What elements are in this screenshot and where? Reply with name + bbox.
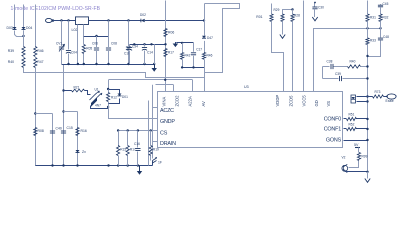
svg-text:R17: R17 [130,148,136,152]
svg-text:GNDP: GNDP [160,119,175,125]
svg-text:D02: D02 [140,13,146,17]
svg-text:C08: C08 [111,42,117,46]
svg-text:ZCD5: ZCD5 [289,95,294,107]
svg-text:5V: 5V [354,143,359,147]
svg-text:R73: R73 [375,90,381,94]
svg-text:Exale: Exale [386,99,394,103]
svg-text:C34: C34 [132,45,138,49]
svg-text:C38: C38 [327,60,333,64]
svg-text:R16: R16 [81,129,87,133]
svg-text:C48: C48 [383,35,389,39]
svg-text:R19: R19 [153,148,159,152]
svg-text:R40: R40 [8,60,14,64]
svg-text:R46: R46 [207,54,213,58]
svg-text:1F: 1F [158,161,162,165]
svg-text:VCC5: VCC5 [302,95,307,107]
svg-text:C14: C14 [147,51,153,55]
svg-text:C45: C45 [383,2,389,6]
svg-text:R39: R39 [8,49,14,53]
svg-text:V2: V2 [342,156,346,160]
svg-text:R40: R40 [350,60,356,64]
svg-text:R29: R29 [274,8,280,12]
svg-text:D03: D03 [7,26,13,30]
svg-text:R21: R21 [74,85,80,89]
svg-text:R06: R06 [168,31,174,35]
svg-text:R47: R47 [37,60,43,64]
svg-text:Zx: Zx [82,150,86,154]
svg-text:VINA: VINA [161,97,166,107]
svg-text:CV1: CV1 [56,42,62,46]
svg-text:C30: C30 [318,6,324,10]
svg-text:R33: R33 [370,39,376,43]
svg-text:R99: R99 [362,155,368,159]
svg-text:CONF1: CONF1 [324,127,341,133]
svg-text:4N7: 4N7 [95,104,101,108]
svg-text:ACZC: ACZC [160,108,174,114]
svg-text:1-mode ICE102ICM PWM-LDO-SR-FB: 1-mode ICE102ICM PWM-LDO-SR-FB [11,6,101,12]
svg-text:GONS: GONS [326,138,342,144]
svg-text:A22A: A22A [188,96,193,106]
svg-text:C15: C15 [67,126,73,130]
svg-text:R42: R42 [185,54,191,58]
svg-text:L02: L02 [72,28,78,32]
svg-text:R51: R51 [349,113,355,117]
svg-text:R17: R17 [168,51,174,55]
svg-text:GD: GD [314,100,319,106]
svg-text:C16: C16 [134,142,140,146]
svg-text:VDDP: VDDP [275,95,280,107]
svg-text:R31: R31 [370,16,376,20]
svg-text:R05: R05 [86,47,92,51]
svg-text:R01: R01 [256,15,262,19]
svg-text:CS: CS [160,130,168,136]
svg-text:C04: C04 [71,51,77,55]
svg-text:R32: R32 [383,16,389,20]
svg-text:C06: C06 [92,42,98,46]
svg-text:D47: D47 [207,36,213,40]
svg-text:C39: C39 [335,72,341,76]
svg-text:C17: C17 [196,48,202,52]
svg-text:R28: R28 [294,14,300,18]
svg-text:VS: VS [326,101,331,107]
svg-text:R52: R52 [349,123,355,127]
svg-text:CONF0: CONF0 [324,117,341,123]
svg-text:DRAIN: DRAIN [160,141,176,147]
svg-text:R46: R46 [37,49,43,53]
svg-text:R08: R08 [38,129,44,133]
svg-text:D04: D04 [26,26,32,30]
svg-text:U3: U3 [244,85,249,89]
svg-text:D01: D01 [122,95,128,99]
svg-text:C40: C40 [56,127,62,131]
svg-text:U1: U1 [95,88,99,92]
svg-text:R12: R12 [111,96,117,100]
svg-text:AV: AV [201,101,206,106]
svg-text:ZCD2: ZCD2 [174,95,179,107]
